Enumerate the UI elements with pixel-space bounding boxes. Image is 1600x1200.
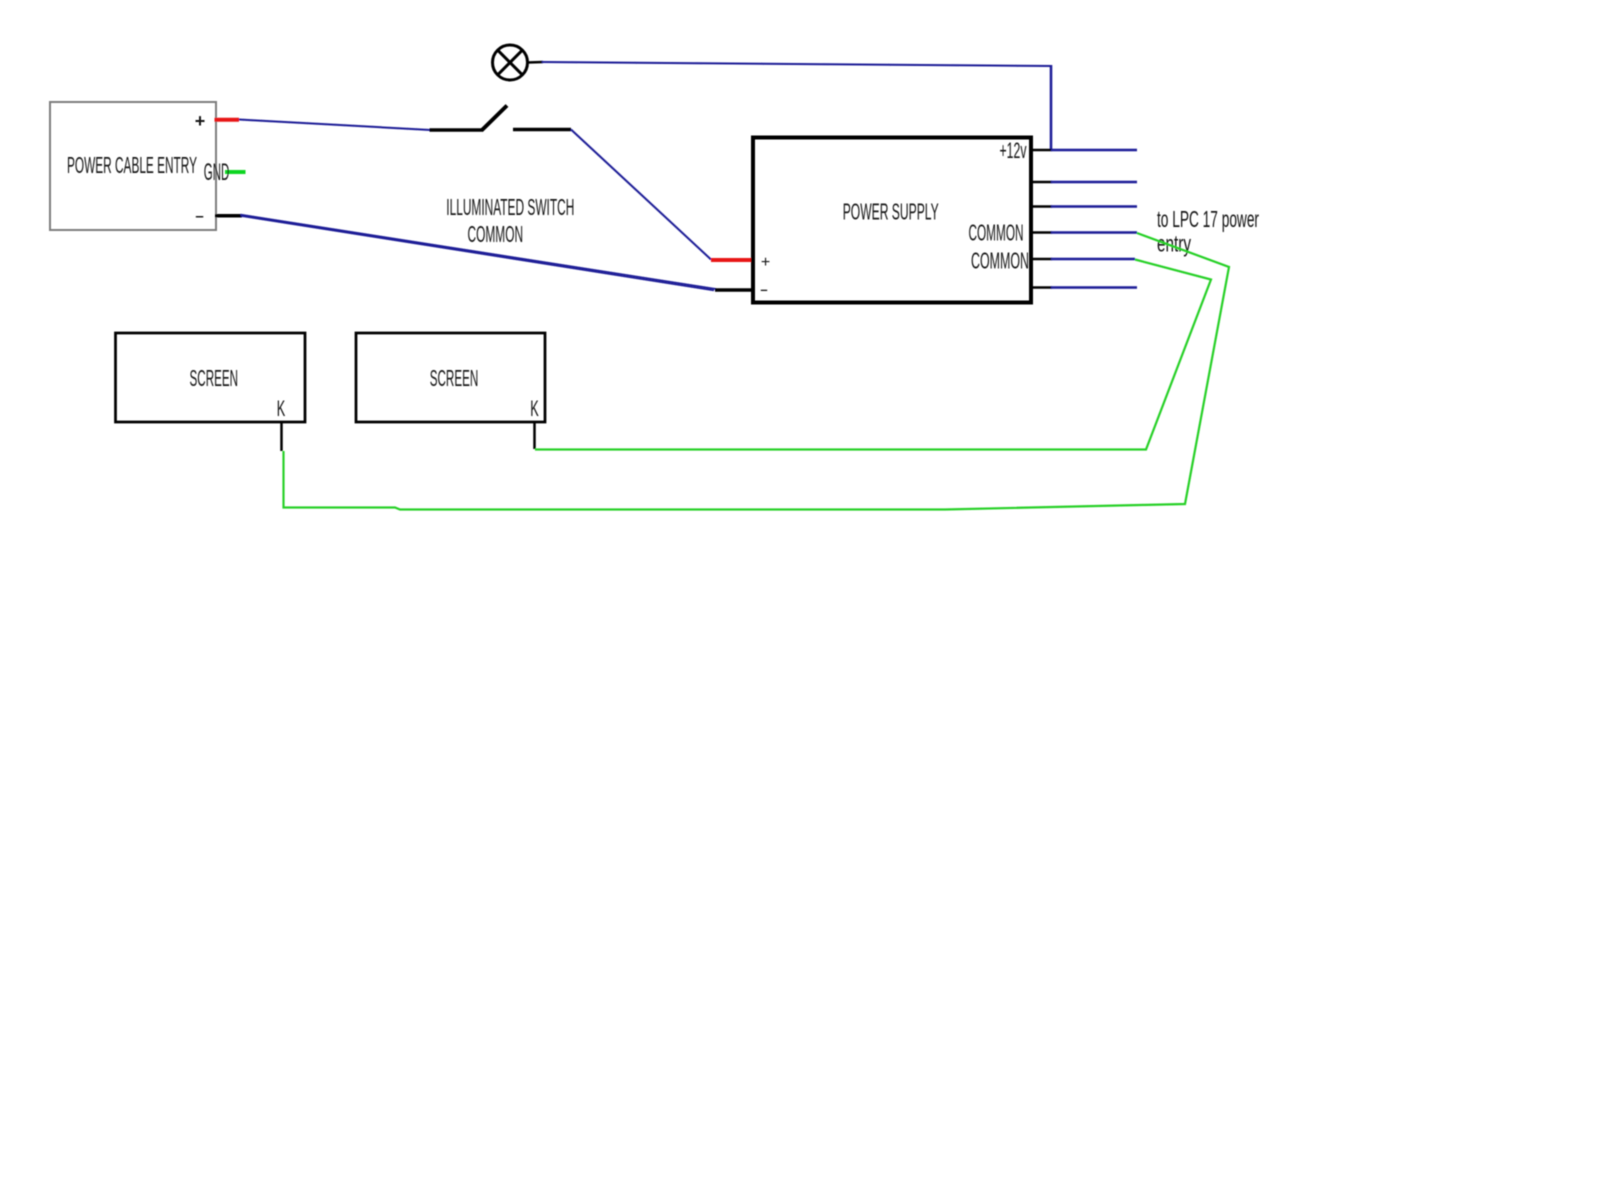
svg-text:SCREEN: SCREEN	[430, 365, 479, 391]
svg-text:ILLUMINATED SWITCH: ILLUMINATED SWITCH	[446, 194, 574, 220]
svg-text:to LPC 17 power: to LPC 17 power	[1157, 206, 1259, 232]
svg-text:+: +	[761, 254, 770, 271]
svg-text:COMMON: COMMON	[468, 221, 524, 247]
svg-text:–: –	[195, 208, 203, 225]
svg-text:K: K	[530, 396, 539, 421]
svg-text:+12v: +12v	[1000, 138, 1027, 163]
svg-text:entry: entry	[1157, 231, 1191, 257]
svg-text:K: K	[277, 396, 286, 421]
svg-text:GND: GND	[204, 159, 230, 186]
svg-text:SCREEN: SCREEN	[190, 365, 239, 391]
svg-text:–: –	[760, 282, 767, 297]
svg-text:+: +	[195, 111, 206, 131]
svg-text:POWER SUPPLY: POWER SUPPLY	[843, 198, 939, 224]
svg-text:COMMON: COMMON	[971, 248, 1029, 274]
svg-text:COMMON: COMMON	[969, 220, 1024, 246]
svg-text:POWER CABLE ENTRY: POWER CABLE ENTRY	[67, 152, 197, 178]
